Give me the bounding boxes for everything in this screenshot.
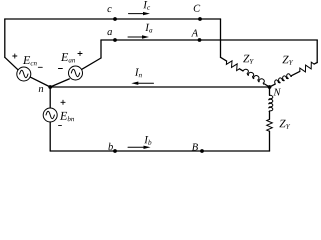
- node b dot: [113, 149, 117, 153]
- label - of E_cn: [38, 66, 42, 68]
- svg-text:Ean: Ean: [60, 50, 76, 64]
- node N dot: [268, 85, 272, 89]
- svg-text:n: n: [38, 84, 43, 95]
- svg-text:Ib: Ib: [143, 134, 152, 146]
- svg-text:A: A: [191, 28, 199, 39]
- wire E_an lead upper: [82, 58, 101, 69]
- current arrow I_a: [128, 36, 144, 38]
- svg-text:C: C: [193, 4, 201, 15]
- wire vertical C to Z_Y: [220, 19, 222, 57]
- current arrow I_n (pointing left): [137, 82, 154, 84]
- wire vertical to phase-a: [100, 40, 102, 58]
- wire bottom phase-b horizontal: [50, 150, 269, 152]
- node n dot: [48, 85, 52, 89]
- svg-text:ZY: ZY: [243, 53, 254, 65]
- source E_an: [69, 66, 83, 80]
- impedance Z_Y left branch (resistor + inductor): [226, 61, 239, 71]
- svg-text:N: N: [272, 87, 281, 98]
- impedance Z_Y bottom branch (inductor + resistor): [269, 95, 273, 111]
- wire left vertical: [4, 19, 6, 57]
- svg-text:ZY: ZY: [279, 118, 290, 130]
- svg-text:Ecn: Ecn: [22, 53, 37, 67]
- wire n to E_bn: [49, 87, 51, 108]
- impedance Z_Y right branch (resistor + inductor): [300, 62, 314, 72]
- node B dot: [200, 149, 204, 153]
- label - of E_bn: [59, 124, 62, 126]
- svg-text:In: In: [134, 67, 143, 79]
- svg-text:b: b: [108, 142, 113, 153]
- svg-text:B: B: [192, 142, 199, 153]
- svg-text:a: a: [107, 27, 112, 38]
- label + of E_cn: [13, 54, 17, 58]
- current arrow I_c: [129, 13, 145, 15]
- wire phase-a horizontal: [101, 39, 317, 41]
- wire neutral n to N: [50, 86, 269, 88]
- label + of E_an: [78, 51, 82, 55]
- wire vertical a to Z_Y right: [316, 40, 318, 63]
- current arrow I_b: [128, 146, 145, 148]
- wire E_bn to bottom: [49, 122, 51, 151]
- svg-text:Ia: Ia: [144, 22, 153, 34]
- label + of E_bn: [61, 100, 65, 104]
- svg-text:c: c: [107, 4, 112, 15]
- node c dot: [113, 17, 117, 21]
- label - of E_an: [58, 68, 62, 70]
- svg-text:ZY: ZY: [282, 54, 293, 66]
- node C dot: [198, 17, 202, 21]
- wire E_cn to node n: [30, 77, 50, 87]
- wire E_an from node n: [50, 79, 69, 87]
- source E_cn: [17, 67, 31, 81]
- node a dot: [113, 38, 117, 42]
- node A dot: [198, 38, 202, 42]
- svg-text:Ic: Ic: [142, 0, 151, 12]
- svg-text:Ebn: Ebn: [59, 109, 75, 123]
- wire top phase-c horizontal: [5, 18, 221, 20]
- wire E_cn lead upper: [5, 57, 18, 70]
- source E_bn: [43, 108, 57, 122]
